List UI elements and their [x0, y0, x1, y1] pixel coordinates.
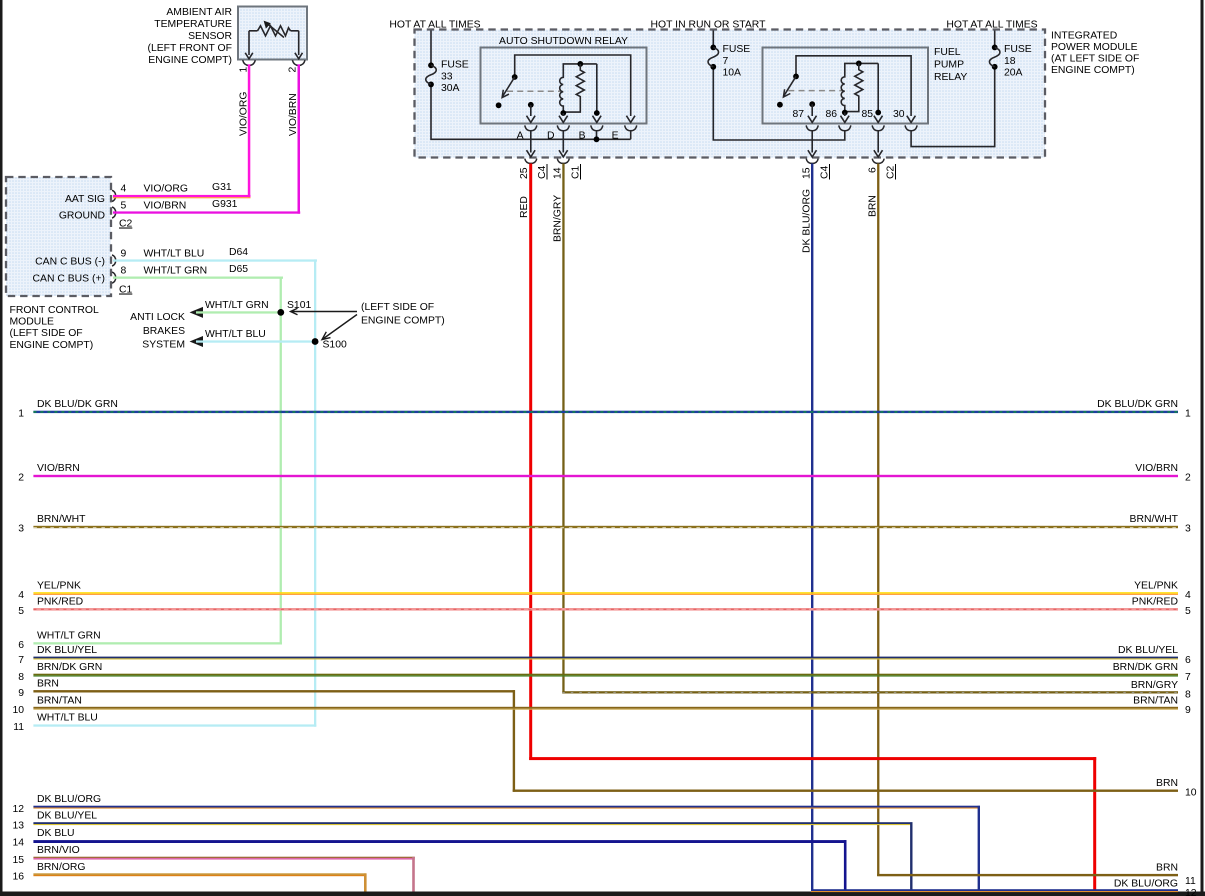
svg-text:AUTO SHUTDOWN RELAY: AUTO SHUTDOWN RELAY	[499, 36, 628, 47]
wire 5 PNK/RED	[33, 608, 1178, 611]
svg-text:BRN: BRN	[37, 679, 59, 690]
ASD pin B connector	[591, 125, 603, 130]
svg-text:ENGINE COMPT): ENGINE COMPT)	[10, 340, 94, 351]
ASD relay coil	[560, 71, 564, 114]
thermistor leads inside sensor	[249, 31, 299, 55]
svg-text:25: 25	[519, 167, 530, 179]
svg-text:D64: D64	[229, 247, 248, 258]
wire 9 BRN vertical jog	[513, 690, 515, 792]
svg-text:PNK/RED: PNK/RED	[1132, 597, 1178, 608]
svg-text:BRN: BRN	[868, 195, 879, 217]
ASD pin B arrowhead	[593, 116, 602, 123]
svg-text:ANTI LOCK: ANTI LOCK	[130, 312, 185, 323]
svg-text:VIO/ORG: VIO/ORG	[239, 92, 250, 136]
wire BRN right 10 horizontal	[513, 790, 1178, 792]
svg-text:BRN: BRN	[1156, 778, 1178, 789]
svg-text:INTEGRATED: INTEGRATED	[1051, 31, 1117, 42]
page frame bottom edge	[0, 892, 1205, 896]
svg-text:POWER MODULE: POWER MODULE	[1051, 42, 1138, 53]
FPR switch contact dot	[777, 102, 783, 108]
svg-text:YEL/PNK: YEL/PNK	[1134, 581, 1178, 592]
ASD relay coil bottom junction dot	[560, 110, 566, 116]
svg-text:C1: C1	[571, 165, 582, 179]
svg-text:C4: C4	[820, 165, 831, 179]
pointer arrow to S101	[291, 308, 358, 314]
svg-text:BRAKES: BRAKES	[143, 326, 185, 337]
wire BRN right 11 horizontal	[877, 874, 1178, 876]
svg-text:BRN/ORG: BRN/ORG	[37, 862, 86, 873]
svg-text:5: 5	[121, 201, 127, 212]
svg-text:TEMPERATURE: TEMPERATURE	[154, 19, 232, 30]
ASD relay switch contact dot	[496, 102, 502, 108]
svg-text:G31: G31	[212, 182, 232, 193]
svg-text:B: B	[579, 131, 586, 142]
wire WHT/LT BLU vertical	[314, 259, 316, 726]
arrow to anti lock brakes (upper)	[190, 307, 204, 318]
svg-text:C2: C2	[119, 219, 133, 230]
sensor pin 2 connector	[292, 60, 305, 65]
wire RED vertical	[529, 164, 532, 761]
svg-text:12: 12	[12, 804, 24, 815]
svg-text:7: 7	[1185, 672, 1191, 683]
svg-text:WHT/LT BLU: WHT/LT BLU	[205, 329, 266, 340]
integrated power module dashed border	[415, 30, 1046, 158]
svg-text:(LEFT SIDE OF: (LEFT SIDE OF	[10, 328, 83, 339]
sensor pin 1 arrowhead	[245, 53, 253, 59]
wire WHT/LT GRN horizontal pin8	[113, 277, 283, 279]
svg-text:4: 4	[18, 590, 24, 601]
svg-text:DK BLU/YEL: DK BLU/YEL	[37, 645, 97, 656]
ASD pin E arrowhead	[626, 116, 635, 123]
wire WHT/LT BLU to ABS	[196, 340, 315, 342]
svg-text:33: 33	[441, 72, 453, 83]
svg-text:WHT/LT GRN: WHT/LT GRN	[144, 266, 208, 277]
svg-text:HOT IN RUN OR START: HOT IN RUN OR START	[651, 20, 767, 31]
svg-text:5: 5	[18, 606, 24, 617]
arrow to anti lock brakes (lower)	[190, 336, 204, 347]
svg-text:FUEL: FUEL	[934, 47, 961, 58]
ASD relay mechanical link dashed	[507, 90, 561, 92]
svg-text:DK BLU/DK GRN: DK BLU/DK GRN	[1097, 399, 1178, 410]
svg-text:2: 2	[288, 67, 299, 73]
svg-text:DK BLU/DK GRN: DK BLU/DK GRN	[37, 399, 118, 410]
ASD relay pin B dot	[594, 110, 600, 116]
connector below 85	[872, 159, 884, 164]
wire 12 vertical jog	[978, 806, 980, 891]
ASD relay resistor	[563, 64, 584, 112]
svg-text:85: 85	[861, 109, 873, 120]
ASD relay pin A lead	[530, 105, 532, 116]
wire 12 DK BLU/ORG (left)	[33, 806, 980, 808]
ASD relay switch pivot dot	[512, 74, 518, 80]
svg-text:6: 6	[18, 640, 24, 651]
svg-text:18: 18	[1004, 56, 1016, 67]
wire VIO/ORG orange tracer	[113, 197, 251, 198]
svg-text:86: 86	[825, 109, 837, 120]
svg-text:13: 13	[12, 820, 24, 831]
svg-text:WHT/LT BLU: WHT/LT BLU	[37, 713, 98, 724]
svg-text:4: 4	[121, 184, 127, 195]
wire WHT/LT GRN to ABS	[196, 311, 282, 313]
FPR pin 87 connector	[806, 125, 818, 130]
FPR pin 87 output lead	[811, 131, 813, 153]
svg-text:BRN/GRY: BRN/GRY	[553, 195, 564, 242]
connector below D	[557, 159, 569, 164]
svg-text:3: 3	[18, 524, 24, 535]
pointer arrow to S100	[322, 315, 357, 340]
svg-text:5: 5	[1185, 606, 1191, 617]
svg-text:FUSE: FUSE	[723, 44, 751, 55]
FPR coil bottom junction dot	[842, 110, 848, 116]
svg-text:ENGINE COMPT): ENGINE COMPT)	[1051, 65, 1135, 76]
svg-text:BRN/WHT: BRN/WHT	[37, 514, 86, 525]
wire 2 VIO/BRN	[33, 475, 1178, 477]
svg-text:GROUND: GROUND	[59, 211, 105, 222]
svg-text:10: 10	[12, 705, 24, 716]
svg-text:14: 14	[553, 167, 564, 179]
ASD pin A arrowhead	[527, 116, 536, 123]
FPR coil top rail	[845, 63, 878, 70]
FPR pin 30 connector	[905, 125, 917, 130]
wire 15 BRN/VIO	[33, 857, 414, 858]
integrated power module box fill	[415, 30, 1046, 158]
svg-text:YEL/PNK: YEL/PNK	[37, 581, 81, 592]
thermistor arrow	[268, 24, 285, 38]
FPR pin 85 arrowhead	[874, 116, 883, 123]
svg-text:8: 8	[121, 266, 127, 277]
thermistor zigzag	[258, 26, 291, 36]
FPR pin 30 arrowhead	[907, 116, 916, 123]
wire DK BLU/ORG bottom horizontal	[811, 889, 1178, 891]
svg-text:PUMP: PUMP	[934, 60, 964, 71]
svg-text:DK BLU: DK BLU	[37, 828, 75, 839]
FPR switch arm	[784, 76, 796, 96]
wire VIO/BRN vertical from sensor pin 2	[298, 64, 301, 213]
svg-text:6: 6	[1185, 655, 1191, 666]
ASD relay coil top rail	[563, 64, 597, 71]
svg-text:BRN/TAN: BRN/TAN	[1133, 695, 1178, 706]
FPR pin 85 branch	[877, 63, 879, 112]
FCM pin 8 connector	[112, 272, 116, 283]
svg-text:D: D	[547, 131, 555, 142]
FPR pin 86 arrowhead	[841, 116, 850, 123]
svg-text:(LEFT FRONT OF: (LEFT FRONT OF	[148, 43, 232, 54]
svg-text:11: 11	[1185, 876, 1196, 887]
svg-text:6: 6	[868, 167, 879, 173]
wire BRN/GRY vertical	[562, 164, 564, 694]
wire 9 BRN (left)	[33, 690, 515, 692]
svg-text:E: E	[612, 131, 619, 142]
wire 13 vertical jog	[910, 822, 912, 891]
svg-text:4: 4	[1185, 590, 1191, 601]
wire 10 BRN/TAN	[33, 707, 1178, 709]
FPR coil	[841, 70, 845, 113]
svg-text:RED: RED	[519, 196, 530, 218]
svg-text:16: 16	[12, 871, 24, 882]
svg-text:12: 12	[1185, 888, 1197, 896]
svg-text:S101: S101	[287, 300, 311, 311]
wire 7 DK BLU/YEL	[33, 657, 1178, 659]
svg-text:11: 11	[13, 722, 24, 733]
wire 16 BRN/ORG	[33, 873, 366, 875]
svg-text:(AT LEFT SIDE OF: (AT LEFT SIDE OF	[1051, 54, 1139, 65]
svg-text:CAN C BUS (-): CAN C BUS (-)	[35, 257, 105, 268]
wire 15 vertical jog	[412, 857, 415, 892]
ASD pin A output lead	[530, 131, 532, 153]
svg-text:9: 9	[1185, 705, 1191, 716]
svg-text:(LEFT SIDE OF: (LEFT SIDE OF	[361, 302, 434, 313]
FPR pin 87 arrowhead	[808, 116, 817, 123]
svg-text:A: A	[517, 131, 524, 142]
FPR pin 87 lead	[811, 104, 813, 116]
wire 8 BRN/DK GRN	[33, 674, 1178, 676]
svg-text:SYSTEM: SYSTEM	[142, 340, 185, 351]
wire 4 YEL/PNK	[33, 592, 1178, 594]
svg-text:D65: D65	[229, 264, 248, 275]
FCM pin 4 connector	[112, 190, 116, 201]
svg-text:SENSOR: SENSOR	[188, 31, 232, 42]
svg-text:G931: G931	[212, 199, 238, 210]
wire 11 WHT/LT BLU (left)	[33, 724, 316, 726]
wire RED lower horizontal	[529, 757, 1096, 760]
svg-text:2: 2	[1185, 473, 1191, 484]
ASD relay switch feed rail	[515, 55, 631, 116]
svg-text:3: 3	[1185, 524, 1191, 535]
wire 14 DK BLU	[33, 840, 846, 843]
wire 16 vertical jog	[364, 873, 367, 891]
svg-text:DK BLU/YEL: DK BLU/YEL	[37, 811, 97, 822]
fuse F18 symbol	[992, 45, 998, 51]
svg-text:1: 1	[1185, 409, 1191, 420]
FPR pin 86 connector	[839, 125, 851, 130]
wire RED lower vertical	[1093, 757, 1096, 891]
FPR switch feed rail	[796, 56, 911, 116]
svg-text:87: 87	[792, 109, 804, 120]
FPR mechanical link dashed	[788, 90, 842, 92]
svg-text:PNK/RED: PNK/RED	[37, 597, 83, 608]
svg-text:15: 15	[12, 855, 24, 866]
wire VIO/BRN horizontal pin5	[113, 211, 300, 213]
svg-text:VIO/BRN: VIO/BRN	[288, 93, 299, 136]
FPR resistor	[845, 63, 863, 111]
svg-text:DK BLU/YEL: DK BLU/YEL	[1118, 645, 1178, 656]
ASD relay pin A contact dot	[528, 102, 534, 108]
wire BRN vertical from FPR 85	[877, 164, 879, 877]
svg-text:1: 1	[18, 409, 24, 420]
ASD relay coil top junction dot	[577, 61, 583, 67]
svg-text:WHT/LT BLU: WHT/LT BLU	[144, 249, 205, 260]
wire 6 WHT/LT GRN (left)	[33, 642, 282, 644]
svg-text:ENGINE COMPT): ENGINE COMPT)	[148, 55, 232, 66]
svg-text:VIO/ORG: VIO/ORG	[144, 184, 188, 195]
splice S101 dot	[277, 309, 284, 316]
wire WHT/LT GRN vertical	[280, 277, 282, 645]
svg-text:C2: C2	[886, 165, 897, 179]
svg-text:2: 2	[18, 473, 24, 484]
FPR pin 86 lead	[844, 113, 846, 117]
ASD pin D arrowhead	[559, 116, 568, 123]
ASD pin E connector	[625, 125, 637, 130]
svg-text:FUSE: FUSE	[1004, 44, 1032, 55]
svg-text:BRN/TAN: BRN/TAN	[37, 695, 82, 706]
ASD relay pin D lead	[562, 113, 564, 116]
svg-text:WHT/LT GRN: WHT/LT GRN	[37, 631, 101, 642]
page frame right edge	[1201, 0, 1204, 896]
ASD feed junction dot at B	[594, 136, 600, 142]
FPR pin 85 connector	[872, 125, 884, 130]
svg-text:30A: 30A	[441, 83, 460, 94]
svg-text:14: 14	[12, 838, 24, 849]
wire BRN/GRY right segment	[562, 691, 1178, 693]
ASD pin D connector	[557, 125, 569, 130]
ASD pin D output lead	[562, 131, 564, 153]
ASD pin A connector	[525, 125, 537, 130]
svg-text:30: 30	[893, 109, 905, 120]
wire 14 vertical jog	[844, 840, 847, 891]
front control module box fill	[6, 177, 111, 296]
svg-text:ENGINE COMPT): ENGINE COMPT)	[361, 316, 445, 327]
svg-text:MODULE: MODULE	[10, 317, 55, 328]
FPR pin 85 output lead	[877, 131, 879, 153]
svg-text:9: 9	[121, 249, 127, 260]
svg-text:RELAY: RELAY	[934, 72, 967, 83]
FCM pin 5 connector	[112, 207, 116, 218]
wire 13 DK BLU/YEL (lower)	[33, 822, 912, 824]
svg-text:AMBIENT AIR: AMBIENT AIR	[166, 7, 232, 18]
svg-text:C4: C4	[537, 165, 548, 179]
svg-text:9: 9	[18, 688, 24, 699]
fuse F33 symbol	[428, 62, 434, 68]
svg-text:10: 10	[1185, 788, 1197, 799]
svg-text:BRN/DK GRN: BRN/DK GRN	[37, 662, 102, 673]
wire fuse 18 feed	[911, 31, 995, 147]
page frame left edge	[0, 0, 3, 896]
svg-text:15: 15	[802, 167, 813, 179]
svg-text:VIO/BRN: VIO/BRN	[37, 463, 80, 474]
sensor pin 2 arrowhead	[295, 53, 303, 59]
FPR coil top junction dot	[856, 61, 862, 67]
fuel pump relay box	[763, 48, 929, 124]
wire VIO/ORG vertical from sensor pin 1	[248, 64, 251, 197]
wire fuse 7 feed	[713, 31, 845, 141]
svg-text:BRN/GRY: BRN/GRY	[1131, 680, 1178, 691]
svg-text:WHT/LT GRN: WHT/LT GRN	[205, 300, 269, 311]
svg-text:DK BLU/ORG: DK BLU/ORG	[1114, 878, 1178, 889]
svg-text:C1: C1	[119, 285, 133, 296]
wire VIO/ORG horizontal pin4	[113, 195, 251, 197]
svg-text:8: 8	[18, 672, 24, 683]
splice S100 dot	[312, 338, 319, 345]
wire 1 DK BLU/DK GRN	[33, 411, 1178, 413]
wire DK BLU/ORG vertical	[811, 164, 813, 892]
svg-text:BRN: BRN	[1156, 862, 1178, 873]
svg-text:CAN C BUS (+): CAN C BUS (+)	[33, 274, 105, 285]
FPR switch pivot dot	[793, 74, 799, 80]
fuse F7 symbol	[710, 45, 716, 51]
svg-text:S100: S100	[323, 340, 347, 351]
svg-text:AAT SIG: AAT SIG	[65, 194, 105, 205]
FCM pin 9 connector	[112, 255, 116, 266]
ASD relay pin B branch	[596, 64, 598, 113]
svg-text:HOT AT ALL TIMES: HOT AT ALL TIMES	[946, 20, 1037, 31]
wire fuse 33 feed	[431, 31, 631, 140]
wire 3 BRN/WHT	[33, 526, 1178, 528]
svg-text:VIO/BRN: VIO/BRN	[144, 201, 187, 212]
svg-text:7: 7	[18, 655, 24, 666]
connector below A	[525, 159, 537, 164]
svg-text:DK BLU/ORG: DK BLU/ORG	[802, 189, 813, 253]
connector below 87	[806, 159, 818, 164]
svg-text:FUSE: FUSE	[441, 60, 469, 71]
svg-text:8: 8	[1185, 690, 1191, 701]
svg-text:DK BLU/ORG: DK BLU/ORG	[37, 794, 101, 805]
ambient air temperature sensor box	[238, 7, 307, 60]
sensor pin 1 connector	[243, 60, 256, 65]
svg-text:BRN/VIO: BRN/VIO	[37, 845, 80, 856]
svg-text:7: 7	[723, 56, 729, 67]
svg-text:FRONT CONTROL: FRONT CONTROL	[10, 305, 100, 316]
FPR pin 85 dot	[875, 110, 881, 116]
front control module dashed border	[6, 177, 111, 296]
svg-text:10A: 10A	[723, 68, 742, 79]
wire WHT/LT BLU horizontal pin9	[113, 259, 317, 261]
svg-text:BRN/WHT: BRN/WHT	[1130, 514, 1179, 525]
svg-text:BRN/DK GRN: BRN/DK GRN	[1113, 662, 1178, 673]
svg-text:VIO/BRN: VIO/BRN	[1135, 463, 1178, 474]
svg-text:20A: 20A	[1004, 68, 1023, 79]
svg-text:HOT AT ALL TIMES: HOT AT ALL TIMES	[389, 20, 480, 31]
ASD relay switch arm	[503, 77, 515, 97]
FPR pin 87 contact dot	[809, 101, 815, 107]
auto shutdown relay box	[481, 48, 647, 124]
